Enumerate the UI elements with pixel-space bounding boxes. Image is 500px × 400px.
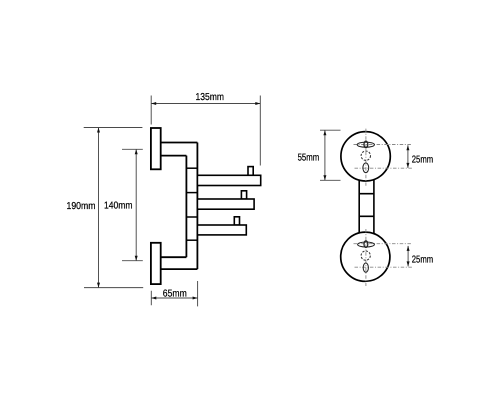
bottom lower hole bbox=[363, 263, 368, 272]
55mm extension lines bbox=[320, 130, 341, 180]
top lower hole bbox=[363, 163, 369, 173]
25mm bottom dimension line bbox=[407, 246, 409, 267]
hook arm 1 bbox=[197, 175, 260, 185]
link bar bbox=[359, 176, 374, 234]
top middle hole bbox=[361, 151, 370, 160]
post right edge bbox=[196, 143, 198, 270]
top slot ellipse bbox=[357, 142, 374, 147]
svg-text:135mm: 135mm bbox=[196, 92, 225, 103]
centerlines (dash-dot) bbox=[354, 129, 413, 286]
top bracket arm bbox=[161, 143, 198, 156]
bottom ball hole centerline bbox=[355, 266, 413, 268]
svg-text:25mm: 25mm bbox=[412, 155, 433, 166]
bottom ball slot centerline bbox=[354, 243, 413, 245]
65mm dimension line bbox=[151, 297, 197, 299]
65mm arrows bbox=[151, 297, 156, 300]
top wall plate bbox=[151, 128, 161, 169]
135mm dimension line bbox=[151, 103, 260, 105]
post divider 2 bbox=[186, 192, 197, 194]
top ball details bbox=[357, 141, 374, 173]
bottom ball bbox=[341, 232, 390, 281]
bottom slot knob bbox=[364, 241, 368, 248]
svg-text:190mm: 190mm bbox=[67, 201, 96, 212]
bottom ball vertical centerline bbox=[365, 229, 367, 286]
190mm arrows bbox=[97, 128, 100, 133]
hook peg 1 bbox=[248, 167, 253, 176]
135mm extension lines bbox=[151, 96, 260, 166]
svg-text:55mm: 55mm bbox=[298, 152, 320, 163]
top slot knob bbox=[364, 141, 368, 148]
hook arm 3 bbox=[197, 225, 246, 235]
135mm arrows bbox=[151, 102, 156, 105]
140mm arrows bbox=[135, 149, 138, 154]
55mm arrows bbox=[323, 130, 326, 135]
55mm dimension line bbox=[324, 130, 326, 180]
svg-text:140mm: 140mm bbox=[104, 201, 133, 212]
top ball vertical centerline bbox=[365, 129, 367, 186]
svg-text:25mm: 25mm bbox=[412, 254, 433, 265]
top ball hole centerline bbox=[355, 167, 413, 169]
bottom slot ellipse bbox=[358, 242, 375, 247]
hook peg 2 bbox=[241, 191, 246, 199]
post left edge bbox=[185, 156, 187, 258]
link dividers bbox=[359, 194, 374, 217]
65mm extension ticks bbox=[151, 281, 197, 306]
25mm top dimension line bbox=[407, 145, 409, 168]
bottom bracket arm bbox=[161, 257, 198, 269]
140mm dimension line bbox=[135, 149, 137, 260]
190mm extension lines bbox=[84, 128, 144, 288]
bottom ball details bbox=[358, 241, 375, 273]
post divider 4 bbox=[186, 239, 197, 241]
25mm bottom arrows bbox=[407, 246, 410, 251]
top ball bbox=[341, 132, 390, 181]
hook peg 3 bbox=[234, 217, 239, 225]
hook arm 2 bbox=[197, 199, 254, 209]
bottom wall plate bbox=[151, 243, 161, 284]
190mm dimension line bbox=[98, 128, 100, 288]
25mm top arrows bbox=[406, 145, 409, 150]
top ball slot centerline bbox=[354, 144, 413, 146]
140mm extension ticks bbox=[122, 149, 143, 260]
bottom middle hole bbox=[361, 251, 370, 260]
svg-text:65mm: 65mm bbox=[163, 288, 187, 299]
post divider 1 bbox=[186, 167, 197, 169]
post divider 3 bbox=[186, 216, 197, 218]
